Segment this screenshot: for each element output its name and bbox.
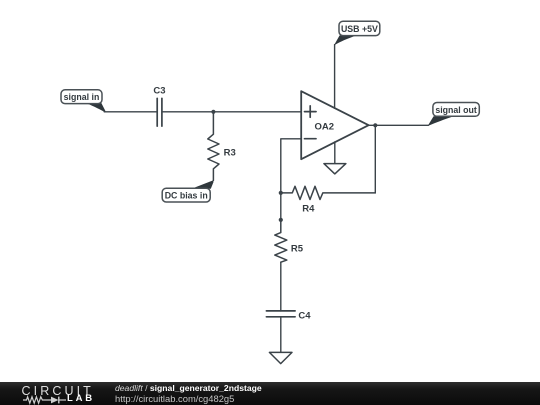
svg-text:DC bias in: DC bias in (165, 191, 208, 201)
wire: to inverting input (281, 139, 301, 193)
credit text (115, 384, 262, 404)
wire: feedback from output (374, 125, 376, 193)
op-amp OA2 (301, 91, 368, 159)
wire: junction to R5 (280, 193, 282, 220)
resistor R5 (275, 220, 304, 262)
wire: C4 to ground (280, 317, 282, 353)
power net flag "USB +5V" (335, 21, 380, 45)
ground (op-amp negative supply) (324, 164, 346, 174)
svg-text:OA2: OA2 (315, 121, 335, 132)
CircuitLab logo (22, 384, 94, 398)
svg-text:signal in: signal in (64, 92, 100, 102)
node junction (R5 top terminal) (279, 218, 283, 222)
capacitor C3 (153, 86, 165, 127)
svg-text:R5: R5 (291, 244, 304, 255)
svg-text:C3: C3 (153, 86, 165, 97)
node junction (C3 / R3) (211, 110, 215, 114)
wire: V- supply pin (334, 142, 336, 164)
svg-text:R3: R3 (224, 148, 236, 159)
ground (bottom) (269, 352, 292, 363)
node junction (R4 / feedback / R5) (279, 191, 283, 195)
wire: op-amp output (369, 124, 429, 126)
resistor R3 (208, 112, 236, 181)
net flag "DC bias in" (162, 180, 213, 202)
node: output junction (373, 123, 377, 127)
net flag "signal in" (61, 90, 106, 112)
wire: signal in to C3 (104, 111, 156, 113)
resistor R4 (281, 186, 376, 214)
footer bar with CircuitLab branding (0, 382, 540, 405)
wire: R5 to C4 (280, 262, 282, 311)
wire: C3 to op-amp + input (163, 111, 302, 113)
svg-text:C4: C4 (298, 311, 311, 322)
wire: V+ supply pin (334, 45, 336, 109)
svg-text:signal out: signal out (435, 105, 477, 115)
capacitor C4 (266, 311, 311, 322)
net flag "signal out" (428, 103, 479, 126)
svg-text:R4: R4 (302, 204, 315, 215)
svg-text:USB +5V: USB +5V (341, 24, 378, 34)
